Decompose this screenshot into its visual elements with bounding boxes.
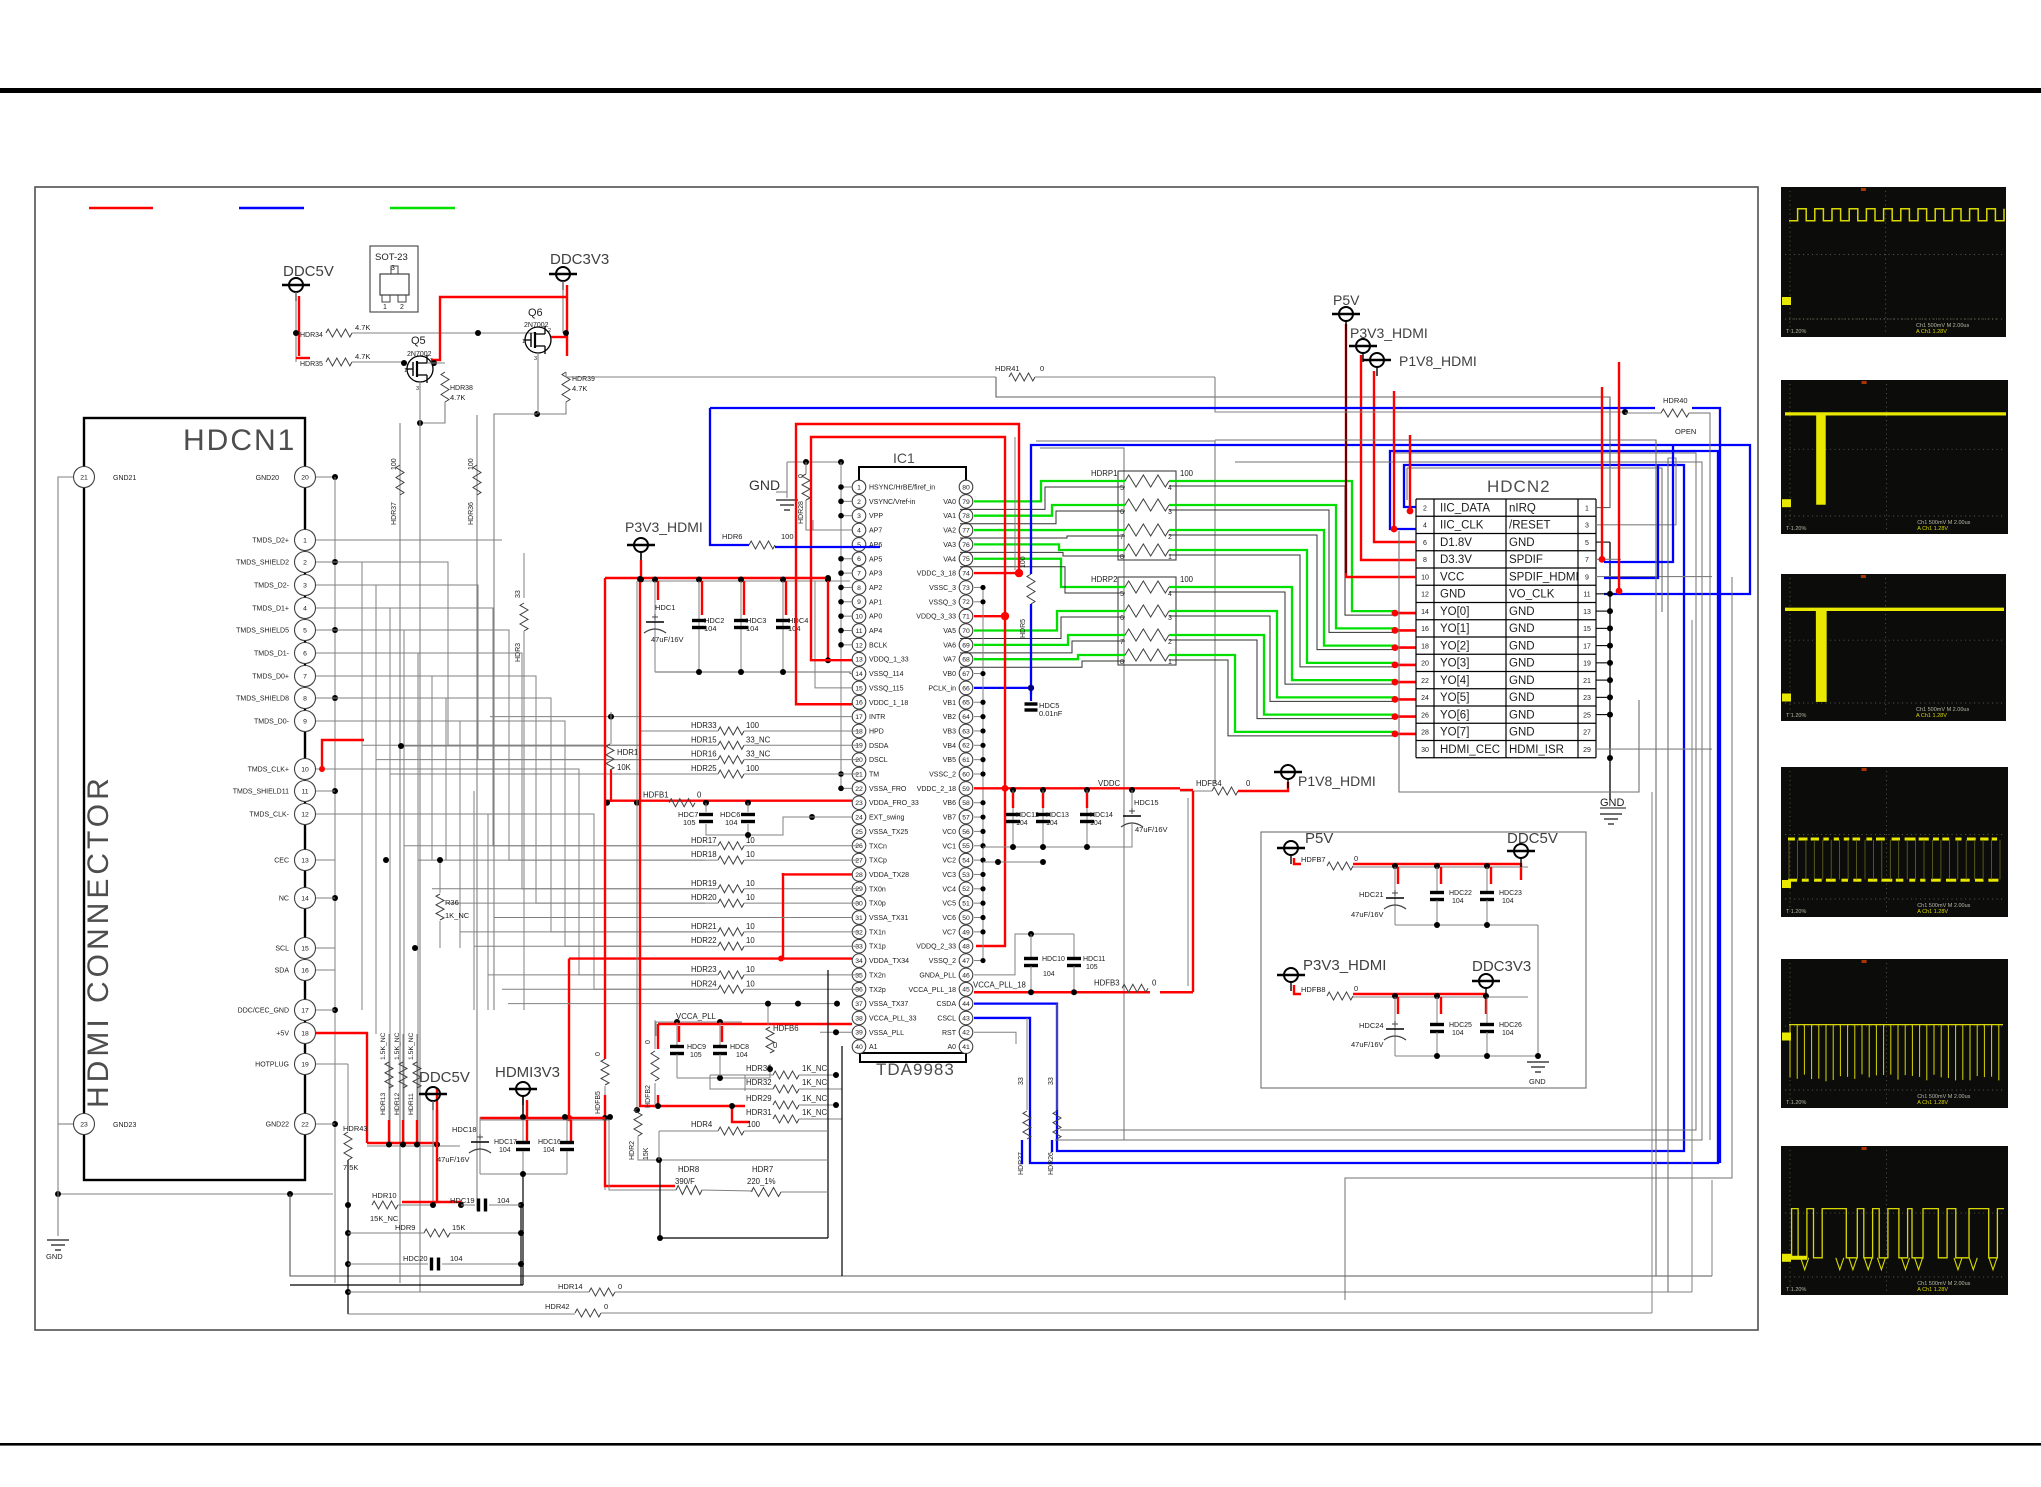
IC1 pin 8 AP2	[852, 581, 866, 595]
oscilloscope capture 2	[1781, 380, 2008, 534]
green wire VA6 to HDRP	[974, 635, 1125, 645]
svg-text:3: 3	[1585, 523, 1589, 530]
green wire YO[3]	[1169, 550, 1395, 663]
red node right B	[1616, 588, 1623, 595]
wire 1276 right up	[1711, 1180, 1713, 1276]
svg-text:SPDIF_HDMI: SPDIF_HDMI	[1509, 571, 1579, 583]
IC1 pin 45 VCCA_PLL_18	[959, 982, 973, 996]
wire EXT_swing	[783, 816, 852, 818]
svg-text:32: 32	[855, 929, 863, 936]
gray verticals right of HDCN2	[1655, 470, 1657, 1276]
wire YO[6] black partner	[1169, 640, 1395, 719]
svg-text:9: 9	[857, 599, 861, 606]
HDRP1 resistor element 2	[1125, 499, 1169, 511]
svg-text:IC1: IC1	[893, 450, 915, 466]
wire pin19 hotplug to HDR43	[316, 1063, 348, 1065]
wire DDC5V down	[295, 292, 297, 362]
resistor HDR37 100 vertical	[399, 423, 401, 1283]
svg-text:8: 8	[1423, 557, 1427, 564]
schematic frame	[35, 187, 1758, 1330]
svg-text:10: 10	[1421, 574, 1429, 581]
svg-text:27: 27	[1583, 730, 1591, 737]
red wire VCCA_PLL to pin38	[658, 1023, 852, 1025]
red stub Q6 drain	[551, 336, 566, 338]
red node VDDC_3_18	[1015, 569, 1023, 577]
svg-text:0: 0	[645, 1040, 652, 1044]
capacitor HDC8 104	[719, 1022, 721, 1045]
wire gray parallel red pair	[1014, 437, 1016, 570]
IC1 pin 32 TX1n	[852, 925, 866, 939]
svg-text:17: 17	[301, 1007, 309, 1014]
svg-text:72: 72	[962, 599, 970, 606]
svg-text:VSSC_2: VSSC_2	[929, 772, 956, 779]
wire pin21 to left rail	[58, 477, 73, 1194]
svg-text:VDDA_FRO_33: VDDA_FRO_33	[869, 800, 919, 807]
svg-text:GNDA_PLL: GNDA_PLL	[919, 972, 956, 979]
svg-text:10: 10	[855, 614, 863, 621]
red wire DDC3V3 net	[566, 285, 568, 356]
svg-text:8: 8	[303, 695, 307, 702]
svg-text:10: 10	[746, 979, 755, 988]
resistor R36 1K_NC vertical	[439, 860, 441, 893]
svg-text:T 1.20%: T 1.20%	[1786, 1100, 1806, 1106]
junction Q6 source	[534, 411, 540, 417]
IC1 pin 22 VSSA_FRO	[852, 782, 866, 796]
gray top nest A	[1215, 440, 1656, 470]
red wire P5V rail	[1294, 858, 1301, 864]
red stubs caps P3V3	[1397, 997, 1399, 1014]
capacitor HDC11 105	[1073, 934, 1075, 958]
IC1 pin 33 TX1p	[852, 939, 866, 953]
svg-text:DDC/CEC_GND: DDC/CEC_GND	[238, 1008, 289, 1015]
IC1 pin 61 VB5	[959, 753, 973, 767]
svg-text:70: 70	[962, 628, 970, 635]
svg-text:0.01nF: 0.01nF	[1039, 709, 1063, 718]
wire GND to bus	[786, 462, 788, 492]
wire VSSA rows	[494, 917, 852, 919]
red vertical from VDDC to HDFB3	[1192, 791, 1194, 992]
wire pin 4 stub	[813, 520, 852, 530]
wire HDR38 bottom	[420, 402, 445, 423]
capacitor HDC17 104	[522, 1120, 524, 1141]
svg-text:105: 105	[683, 818, 696, 827]
blue vertical mid A	[1604, 445, 1673, 562]
red stub YO[6]	[1393, 715, 1416, 718]
wire Q5 source down	[419, 382, 421, 423]
capacitor HDC15 47uF/16V electrolytic	[1131, 790, 1133, 812]
svg-text:A Ch1 1.28V: A Ch1 1.28V	[1917, 1100, 1948, 1106]
svg-text:HDR3: HDR3	[515, 643, 522, 662]
svg-text:VDDA_TX34: VDDA_TX34	[869, 958, 909, 965]
junction R36 bottom	[412, 945, 418, 951]
IC1 pin 62 VB4	[959, 739, 973, 753]
svg-text:11: 11	[301, 788, 308, 795]
svg-text:TX2p: TX2p	[869, 987, 886, 994]
svg-text:7: 7	[303, 673, 307, 680]
svg-text:HDR24: HDR24	[691, 979, 717, 988]
svg-text:10: 10	[746, 850, 755, 859]
svg-text:HDC11: HDC11	[1083, 956, 1106, 963]
svg-text:T 1.20%: T 1.20%	[1786, 909, 1806, 915]
svg-text:8: 8	[1120, 659, 1124, 666]
red wire VCC feed	[1346, 324, 1416, 577]
svg-text:HDC23: HDC23	[1499, 890, 1522, 897]
wire caps ground rail	[706, 817, 852, 835]
svg-text:AP1: AP1	[869, 599, 882, 606]
svg-text:24: 24	[1421, 695, 1429, 702]
wire HDR14 right up	[1691, 620, 1693, 1292]
power P3V3_HDMI top	[1349, 345, 1377, 347]
svg-text:A Ch1 1.28V: A Ch1 1.28V	[1917, 1287, 1948, 1293]
wire Q5 drain node	[427, 362, 445, 364]
svg-text:VC1: VC1	[942, 843, 956, 850]
svg-text:AP7: AP7	[869, 528, 882, 535]
junction rail dots	[638, 577, 644, 583]
wire VSSQ_115	[815, 581, 852, 688]
wire HDCN2 GND net vertical	[1609, 542, 1611, 800]
resistor HDR38 4.7K	[441, 372, 449, 402]
blue wire HDR6 right	[775, 546, 880, 548]
wire P5V black down	[1345, 321, 1347, 573]
svg-text:VSSA_TX25: VSSA_TX25	[869, 829, 908, 836]
svg-text:62: 62	[962, 743, 970, 750]
HDCN1 pin 13 CEC	[295, 850, 316, 871]
svg-text:41: 41	[962, 1044, 970, 1051]
svg-text:3: 3	[303, 582, 307, 589]
svg-text:VA0: VA0	[943, 499, 956, 506]
svg-text:TMDS_SHIELD2: TMDS_SHIELD2	[236, 560, 289, 567]
IC1 pin 76 VA3	[959, 538, 973, 552]
svg-text:12: 12	[301, 811, 309, 818]
svg-text:104: 104	[543, 1147, 555, 1154]
capacitor HDC4 104	[782, 581, 784, 672]
svg-text:6: 6	[1423, 540, 1427, 547]
svg-text:HDR9: HDR9	[395, 1223, 415, 1232]
HDCN1 pin 21 GND21	[74, 467, 95, 488]
HDCN1 pin 5 TMDS_SHIELD5	[295, 620, 316, 641]
resistor HDR9 15K	[345, 1230, 351, 1236]
wire pin20 to bus	[316, 476, 335, 478]
wire VA4 black partner	[960, 567, 1125, 593]
ground GND cap box	[1527, 1061, 1549, 1063]
svg-text:HDR32: HDR32	[746, 1078, 772, 1087]
legend red wire	[89, 207, 153, 210]
svg-text:48: 48	[962, 944, 970, 951]
svg-text:18: 18	[855, 728, 863, 735]
svg-text:54: 54	[962, 858, 970, 865]
wire HDR39 top to HDR41	[566, 372, 600, 377]
svg-text:GND: GND	[1529, 1077, 1546, 1086]
wire gray box HDCN2	[1399, 531, 1639, 792]
wire gray box green field	[1036, 441, 1215, 784]
gray rail caps	[637, 580, 850, 582]
legend green wire	[390, 207, 455, 210]
svg-text:19: 19	[855, 743, 863, 750]
svg-text:7.5K: 7.5K	[343, 1163, 358, 1172]
svg-text:26: 26	[855, 843, 863, 850]
red wire VDDA_FRO_33	[605, 800, 852, 802]
wire HDR41 long to right	[1215, 377, 1622, 412]
red node TX34	[778, 956, 784, 962]
svg-text:HDR37: HDR37	[391, 502, 398, 525]
svg-text:HDMI_ISR: HDMI_ISR	[1509, 744, 1564, 756]
red vertical HDCN2 right B	[1618, 362, 1620, 591]
HDCN1 pin 11 TMDS_SHIELD11	[295, 781, 316, 802]
IC1 pin 73 VSSC_3	[959, 581, 973, 595]
svg-text:HDC9: HDC9	[687, 1044, 706, 1051]
svg-text:105: 105	[690, 1052, 702, 1059]
svg-text:GND: GND	[1509, 727, 1535, 739]
svg-text:HDR21: HDR21	[691, 922, 717, 931]
svg-text:HDR4: HDR4	[691, 1120, 713, 1129]
svg-text:HDMI3V3: HDMI3V3	[495, 1064, 560, 1081]
svg-text:22: 22	[855, 786, 863, 793]
svg-text:13: 13	[301, 857, 309, 864]
red wire to Q5 drain	[431, 297, 567, 360]
svg-text:0: 0	[773, 1041, 778, 1050]
HDCN1 pin 19 HOTPLUG	[295, 1054, 316, 1075]
svg-text:43: 43	[962, 1015, 970, 1022]
svg-text:5: 5	[1120, 591, 1124, 598]
svg-text:65: 65	[962, 700, 970, 707]
svg-text:1: 1	[522, 339, 525, 345]
svg-text:INTR: INTR	[869, 714, 885, 721]
oscilloscope capture 1	[1781, 187, 2006, 337]
IC1 pin 34 VDDA_TX34	[852, 954, 866, 968]
svg-text:VSSQ_115: VSSQ_115	[869, 685, 904, 692]
svg-text:VDDC_2_18: VDDC_2_18	[917, 786, 956, 793]
svg-text:A0: A0	[947, 1044, 956, 1051]
IC1 pin 30 TX0p	[852, 896, 866, 910]
svg-text:VA6: VA6	[943, 642, 956, 649]
HDCN1 pin 10 TMDS_CLK+	[295, 759, 316, 780]
IC1 pin 79 VA0	[959, 495, 973, 509]
wire INTR row	[490, 716, 852, 718]
svg-text:76: 76	[962, 542, 970, 549]
HDCN1 pin 12 TMDS_CLK-	[295, 804, 316, 825]
svg-text:4.7K: 4.7K	[355, 352, 370, 361]
svg-text:VB0: VB0	[943, 671, 956, 678]
svg-text:RST: RST	[942, 1030, 957, 1037]
svg-text:HDR15: HDR15	[691, 735, 717, 744]
svg-text:0: 0	[697, 791, 702, 800]
svg-text:TX1n: TX1n	[869, 929, 886, 936]
wire gray companion P3V3 feed	[636, 581, 638, 1110]
red node YO[5]	[1392, 696, 1399, 703]
HDRP1 resistor element 3	[1125, 524, 1169, 536]
svg-text:1.5K_NC: 1.5K_NC	[380, 1032, 387, 1060]
wire VA0 black partner	[960, 487, 1125, 509]
svg-text:14: 14	[855, 671, 863, 678]
IC1 pin 55 VC1	[959, 839, 973, 853]
power DDC3V3 top	[549, 273, 577, 275]
svg-text:18: 18	[301, 1030, 309, 1037]
resistor HDR1 10K vertical	[401, 745, 608, 747]
wire VA5 black partner	[960, 617, 1125, 639]
IC1 pin 28 VDDA_TX28	[852, 868, 866, 882]
svg-text:40: 40	[855, 1044, 863, 1051]
svg-text:GND: GND	[1509, 675, 1535, 687]
svg-text:28: 28	[855, 872, 863, 879]
red stub YO[2]	[1393, 646, 1416, 649]
IC1 pin 16 VDDC_1_18	[852, 695, 866, 709]
red stub YO[3]	[1393, 664, 1416, 667]
power DDC3V3 lower	[1472, 980, 1500, 982]
red wire VDDA_TX34 long	[569, 957, 852, 959]
svg-text:104: 104	[788, 624, 801, 633]
capacitor HDC25 104	[1436, 997, 1438, 1024]
svg-text:29: 29	[1583, 747, 1591, 754]
capacitor HDC12 104	[1012, 790, 1014, 847]
red node YO[2]	[1392, 644, 1399, 651]
IC1 pin 29 TX0n	[852, 882, 866, 896]
svg-text:T 1.20%: T 1.20%	[1786, 329, 1806, 335]
svg-text:HDR6: HDR6	[722, 532, 742, 541]
IC1 pin 59 VDDC_2_18	[959, 782, 973, 796]
IC1 pin 14 VSSQ_114	[852, 667, 866, 681]
svg-text:50: 50	[962, 915, 970, 922]
HDMI connector HDCN1	[84, 418, 305, 1180]
wire to lower rail	[290, 1194, 1712, 1276]
green wire VA1 to HDRP	[974, 505, 1125, 516]
svg-text:CSCL: CSCL	[937, 1015, 956, 1022]
svg-text:220_1%: 220_1%	[747, 1177, 776, 1186]
resistor HDR12 1.5K_NC vertical	[402, 1034, 404, 1143]
capacitor HDC6 104	[747, 803, 749, 812]
svg-text:T 1.20%: T 1.20%	[1786, 1287, 1806, 1293]
svg-text:4: 4	[1423, 523, 1427, 530]
capacitor HDC7 105	[705, 803, 707, 812]
svg-text:HDR1: HDR1	[617, 748, 638, 757]
IC1 pin 68 VA7	[959, 652, 973, 666]
junction P3V3 rail dots	[1392, 993, 1398, 999]
green wire VA2 to HDRP	[974, 529, 1125, 531]
wire A0 A1 bottom U	[860, 1054, 966, 1062]
svg-text:2: 2	[303, 559, 307, 566]
svg-text:VC5: VC5	[942, 901, 956, 908]
svg-text:104: 104	[1043, 971, 1055, 978]
resistor HDR13 1.5K_NC vertical	[388, 1034, 390, 1143]
wire VSSA_PLL row	[820, 1031, 852, 1033]
wire GNDA_PLL to caps	[974, 934, 1074, 975]
svg-text:45: 45	[962, 987, 970, 994]
wire right corner big	[1345, 577, 1732, 1300]
IC1 pin 52 VC4	[959, 882, 973, 896]
capacitor HDC1 47uF/16V	[654, 581, 656, 672]
svg-text:DDC5V: DDC5V	[283, 263, 334, 280]
IC1 pin 24 EXT_swing	[852, 810, 866, 824]
junction pin20 bus	[332, 474, 338, 480]
HDCN1 pin 3 TMDS_D2-	[295, 575, 316, 596]
svg-text:1.5K_NC: 1.5K_NC	[408, 1032, 415, 1060]
svg-text:21: 21	[1583, 678, 1591, 685]
IC1 pin 12 BCLK	[852, 638, 866, 652]
svg-text:HDFB7: HDFB7	[1301, 855, 1326, 864]
svg-text:TMDS_D2-: TMDS_D2-	[254, 583, 290, 590]
svg-text:6: 6	[1120, 509, 1124, 516]
HDCN1 pin 14 NC	[295, 888, 316, 909]
svg-text:VB3: VB3	[943, 728, 956, 735]
svg-text:GND: GND	[1509, 709, 1535, 721]
svg-text:HDFB5: HDFB5	[595, 1091, 602, 1114]
wire VA7 black partner	[960, 661, 1125, 667]
HDCN1 pin 6 TMDS_D1-	[295, 643, 316, 664]
junction HDR40 node	[1622, 409, 1628, 415]
svg-text:0: 0	[1040, 364, 1044, 373]
resistor HDR39 4.7K	[562, 372, 570, 402]
svg-text:10: 10	[746, 893, 755, 902]
svg-text:YO[0]: YO[0]	[1440, 606, 1469, 618]
svg-text:22: 22	[1421, 678, 1429, 685]
svg-text:PCLK_in: PCLK_in	[928, 685, 956, 692]
svg-text:14: 14	[1421, 609, 1429, 616]
svg-text:1K_NC: 1K_NC	[802, 1094, 828, 1103]
svg-text:HDR34: HDR34	[300, 332, 323, 339]
svg-text:HDR16: HDR16	[691, 750, 717, 759]
svg-text:AP5: AP5	[869, 556, 882, 563]
svg-text:TX0p: TX0p	[869, 901, 886, 908]
IC1 pin 21 TM	[852, 767, 866, 781]
svg-text:1: 1	[303, 537, 307, 544]
svg-text:10: 10	[301, 766, 309, 773]
capacitor HDC9 105	[676, 1022, 678, 1045]
IC1 pin 15 VSSQ_115	[852, 681, 866, 695]
svg-text:GND: GND	[46, 1252, 63, 1261]
svg-text:80: 80	[962, 484, 970, 491]
wire row 1283 long	[57, 1124, 59, 1194]
svg-text:A Ch1 1.28V: A Ch1 1.28V	[1916, 329, 1947, 335]
IC1 pin 41 A0	[959, 1040, 973, 1054]
HDRP2 resistor element 4	[1125, 649, 1169, 661]
svg-text:79: 79	[962, 499, 970, 506]
svg-text:HDR29: HDR29	[746, 1094, 772, 1103]
IC1 pin 3 VPP	[852, 509, 866, 523]
power DDC5V lower	[419, 1093, 447, 1095]
wire decoupling box	[1261, 832, 1586, 1088]
svg-text:HDR25: HDR25	[691, 764, 717, 773]
svg-text:66: 66	[962, 685, 970, 692]
svg-text:HDC26: HDC26	[1499, 1022, 1522, 1029]
wire HDC20 row vertical	[520, 1205, 522, 1285]
svg-text:4.7K: 4.7K	[355, 323, 370, 332]
svg-text:11: 11	[855, 628, 862, 635]
HDCN1 pin 8 TMDS_SHIELD8	[295, 688, 316, 709]
wire HDCN1 pin stubs	[316, 539, 335, 541]
capacitor HDC3 104	[740, 581, 742, 672]
capacitor HDC16 104	[566, 1120, 568, 1141]
svg-text:NC: NC	[279, 896, 289, 903]
svg-text:15K: 15K	[643, 1147, 650, 1160]
wire pin5 GND stub	[1596, 541, 1610, 543]
svg-text:HDCN2: HDCN2	[1487, 477, 1551, 496]
wire HDR42 right up	[1651, 792, 1653, 1313]
IC1 pin 6 AP5	[852, 552, 866, 566]
svg-text:15: 15	[1583, 626, 1591, 633]
svg-text:HDC15: HDC15	[1134, 798, 1159, 807]
junction GND net bottom	[1607, 755, 1613, 761]
wire VA3 black partner	[960, 552, 1125, 556]
capacitor HDC14 104	[1086, 790, 1088, 847]
svg-text:4: 4	[857, 527, 861, 534]
IC1 pin 77 VA2	[959, 523, 973, 537]
svg-text:21: 21	[855, 771, 863, 778]
svg-text:39: 39	[855, 1030, 863, 1037]
svg-text:HDR14: HDR14	[558, 1282, 583, 1291]
wire DDC3V3 down	[562, 281, 564, 333]
svg-text:BCLK: BCLK	[869, 642, 888, 649]
svg-text:18: 18	[1421, 643, 1429, 650]
svg-text:17: 17	[1583, 643, 1591, 650]
